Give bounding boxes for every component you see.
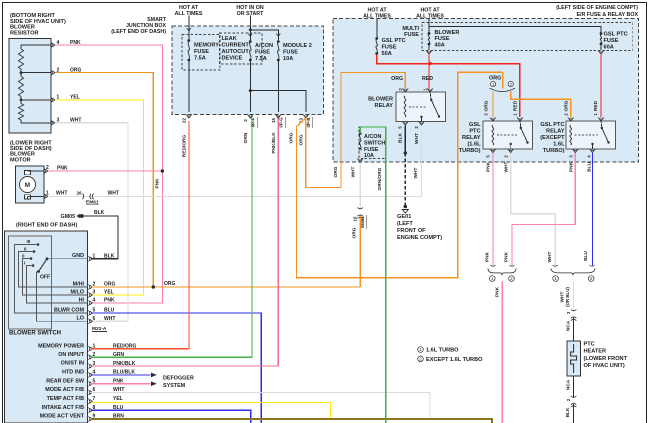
svg-text:PNK: PNK (568, 161, 574, 172)
svg-text:1: 1 (46, 191, 49, 197)
svg-text:OFF: OFF (40, 275, 50, 281)
svg-text:ORG: ORG (333, 166, 339, 177)
svg-text:FUSE: FUSE (255, 50, 270, 56)
svg-text:MODE ACT F/B: MODE ACT F/B (45, 387, 84, 393)
svg-text:GRN/ORG: GRN/ORG (377, 167, 383, 190)
svg-text:WHT: WHT (413, 167, 419, 178)
svg-text:(LEFT END OF DASH): (LEFT END OF DASH) (111, 29, 166, 35)
svg-text:BLK: BLK (565, 407, 571, 417)
svg-text:DEVICE: DEVICE (222, 56, 243, 62)
svg-text:A/CON: A/CON (364, 134, 381, 140)
svg-text:(1.6L: (1.6L (467, 142, 481, 148)
svg-text:RED/ORG: RED/ORG (182, 135, 188, 158)
svg-text:NCA: NCA (565, 320, 571, 331)
svg-text:(LEFT SIDE OF ENGINE COMPT): (LEFT SIDE OF ENGINE COMPT) (556, 5, 638, 11)
svg-text:60A: 60A (604, 44, 614, 50)
svg-text:AUTOCUT: AUTOCUT (222, 49, 250, 55)
svg-text:1.6L TURBO: 1.6L TURBO (426, 348, 459, 354)
svg-text:SWITCH: SWITCH (364, 141, 385, 147)
svg-text:(EXCEPT: (EXCEPT (540, 135, 565, 141)
svg-text:GSL PTC: GSL PTC (604, 32, 628, 38)
svg-text:I/P-B: I/P-B (306, 117, 311, 127)
svg-text:MOTOR: MOTOR (10, 157, 31, 163)
svg-text:LO: LO (77, 316, 85, 322)
svg-text:PNK: PNK (155, 178, 161, 189)
svg-text:BLU: BLU (586, 162, 592, 172)
svg-text:TURBO): TURBO) (543, 148, 565, 154)
svg-text:RED: RED (593, 100, 599, 111)
svg-text:DEFOGGER: DEFOGGER (163, 375, 194, 381)
svg-text:ALL TIMES: ALL TIMES (416, 13, 444, 19)
svg-text:7.5A: 7.5A (255, 56, 267, 62)
svg-text:2: 2 (46, 165, 49, 171)
svg-text:BLU: BLU (583, 251, 589, 261)
svg-text:PTC: PTC (584, 342, 595, 348)
svg-text:LEAK: LEAK (222, 36, 237, 42)
svg-text:SYSTEM: SYSTEM (163, 383, 186, 389)
svg-text:4: 4 (93, 298, 96, 304)
svg-text:FUSE: FUSE (604, 38, 619, 44)
svg-text:A/CON: A/CON (255, 43, 273, 49)
svg-text:ORG: ORG (299, 134, 305, 145)
svg-text:WHT: WHT (56, 191, 67, 197)
svg-text:PNK: PNK (104, 298, 115, 304)
svg-text:BLWR COM: BLWR COM (54, 307, 84, 313)
svg-text:FUSE: FUSE (283, 50, 298, 56)
svg-text:ON INPUT: ON INPUT (58, 352, 84, 358)
svg-text:ORG: ORG (483, 100, 489, 111)
svg-text:6: 6 (93, 316, 96, 322)
svg-text:YEL: YEL (113, 396, 123, 402)
svg-text:PTC: PTC (469, 129, 480, 135)
svg-text:10A: 10A (283, 56, 293, 62)
svg-text:PNK/BLK: PNK/BLK (271, 132, 277, 154)
svg-text:WHT: WHT (547, 251, 553, 262)
svg-text:III: III (27, 239, 31, 244)
svg-text:22: 22 (182, 118, 187, 123)
svg-text:REAR DEF SW: REAR DEF SW (46, 378, 85, 384)
svg-text:EXCEPT 1.6L TURBO: EXCEPT 1.6L TURBO (426, 357, 483, 363)
svg-text:26: 26 (77, 191, 83, 196)
svg-text:15: 15 (271, 118, 276, 123)
svg-text:GE01: GE01 (397, 214, 411, 220)
svg-text:RESISTOR: RESISTOR (10, 30, 39, 36)
svg-text:FUSE: FUSE (435, 36, 450, 42)
svg-text:ORG: ORG (351, 227, 357, 238)
svg-text:GSL PTC: GSL PTC (382, 38, 406, 44)
svg-text:ORG: ORG (564, 100, 570, 111)
svg-text:(OR BLU): (OR BLU) (565, 287, 570, 307)
svg-text:16: 16 (352, 216, 357, 221)
svg-text:10A: 10A (364, 153, 374, 159)
svg-text:I/P-F: I/P-F (251, 117, 256, 127)
svg-text:PNK: PNK (485, 251, 491, 262)
svg-text:FUSE: FUSE (382, 45, 397, 51)
svg-text:GM05: GM05 (61, 214, 76, 220)
svg-text:RELAY: RELAY (546, 129, 565, 135)
svg-text:BLOWER: BLOWER (435, 30, 460, 36)
svg-text:3: 3 (243, 119, 248, 122)
svg-text:FUSE: FUSE (194, 49, 209, 55)
svg-text:(RIGHT END OF DASH): (RIGHT END OF DASH) (16, 222, 77, 228)
svg-text:RELAY: RELAY (462, 135, 481, 141)
svg-text:NCA: NCA (565, 379, 571, 390)
svg-text:PNK: PNK (486, 161, 492, 172)
svg-text:40A: 40A (435, 42, 445, 48)
svg-text:1: 1 (93, 254, 96, 260)
svg-text:WHT: WHT (351, 166, 357, 177)
svg-text:MEMORY POWER: MEMORY POWER (38, 343, 84, 349)
svg-text:WHT: WHT (414, 133, 420, 144)
svg-text:PNK: PNK (494, 286, 500, 297)
svg-text:M/LO: M/LO (71, 289, 84, 295)
svg-text:MEMORY: MEMORY (194, 43, 219, 49)
svg-text:2: 2 (566, 398, 571, 401)
svg-text:GSL: GSL (469, 122, 481, 128)
svg-text:MODULE 2: MODULE 2 (283, 43, 312, 49)
svg-text:II: II (24, 246, 26, 251)
svg-text:RELAY: RELAY (375, 103, 394, 109)
svg-text:M: M (25, 182, 30, 189)
svg-text:I/P-G: I/P-G (279, 117, 284, 128)
svg-text:ENGINE COMPT): ENGINE COMPT) (397, 235, 442, 241)
svg-text:3: 3 (93, 290, 96, 296)
svg-text:BLK: BLK (397, 133, 403, 143)
svg-text:INTAKE ACT F/B: INTAKE ACT F/B (42, 405, 84, 411)
svg-text:1.6L: 1.6L (553, 142, 565, 148)
svg-text:YEL: YEL (104, 290, 114, 296)
svg-text:(LOWER FRONT: (LOWER FRONT (584, 356, 628, 362)
svg-text:ORG: ORG (391, 76, 403, 82)
svg-text:BLK: BLK (94, 210, 105, 216)
svg-text:(LEFT: (LEFT (397, 221, 413, 227)
svg-text:WHT: WHT (108, 191, 119, 197)
svg-text:7: 7 (93, 396, 96, 402)
svg-text:HEATER: HEATER (584, 349, 607, 355)
svg-text:E/R FUSE & RELAY BOX: E/R FUSE & RELAY BOX (576, 12, 638, 18)
svg-text:HTD IND: HTD IND (62, 370, 84, 376)
svg-text:FUSE: FUSE (404, 32, 419, 38)
svg-text:BLOWER SWITCH: BLOWER SWITCH (9, 331, 61, 337)
svg-text:OF HVAC UNIT): OF HVAC UNIT) (584, 363, 625, 369)
svg-text:RED: RED (422, 76, 433, 82)
svg-text:3: 3 (566, 311, 571, 314)
svg-text:ORG: ORG (289, 132, 295, 143)
svg-text:I: I (24, 261, 25, 266)
svg-text:TEMP ACT F/B: TEMP ACT F/B (47, 396, 85, 402)
svg-text:GRN: GRN (243, 132, 249, 143)
svg-text:ORG: ORG (489, 76, 501, 82)
svg-text:ON/ST IN: ON/ST IN (61, 361, 84, 367)
svg-text:50A: 50A (382, 51, 392, 57)
svg-text:BLOWER: BLOWER (368, 97, 393, 103)
svg-text:GND: GND (72, 253, 84, 259)
svg-text:MULTI: MULTI (402, 26, 419, 32)
svg-text:WHT: WHT (504, 161, 510, 172)
svg-text:GSL PTC: GSL PTC (540, 122, 564, 128)
svg-text:BLK: BLK (104, 254, 115, 260)
svg-text:MODE ACT VENT: MODE ACT VENT (40, 414, 85, 420)
svg-text:RED: RED (513, 100, 519, 111)
svg-text:WHT: WHT (104, 316, 115, 322)
svg-text:FRONT OF: FRONT OF (397, 228, 426, 234)
svg-text:HI: HI (79, 297, 85, 303)
svg-text:CURRENT: CURRENT (222, 42, 250, 48)
svg-text:ORG: ORG (164, 281, 176, 287)
svg-text:PNK: PNK (504, 251, 510, 262)
svg-text:7.5A: 7.5A (194, 56, 206, 62)
svg-text:M/HI: M/HI (73, 281, 85, 287)
svg-text:TURBO): TURBO) (459, 148, 481, 154)
